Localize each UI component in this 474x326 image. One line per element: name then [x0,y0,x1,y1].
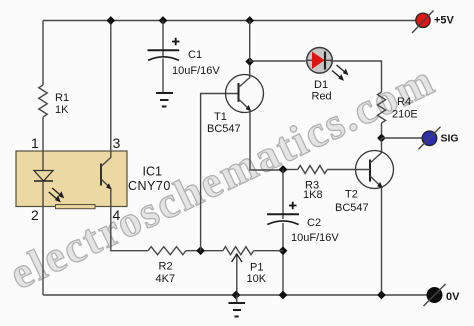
wire T1 emitter to junction [250,110,283,170]
svg-text:C2: C2 [307,217,321,229]
potentiometer P1 [223,247,254,295]
node junction top rail / T1 collector [245,16,254,25]
node junction T1 collector / D1 [245,57,254,66]
svg-text:CNY70: CNY70 [128,179,171,193]
wire junction to R3 [283,169,298,171]
resistor R1 [39,85,47,117]
wire R4 to junction [381,123,383,138]
svg-text:C1: C1 [188,49,202,61]
emission arrows of D1 [332,65,349,81]
node junction top rail / pin3 [106,16,115,25]
wire junction to SIG [382,137,423,139]
wire junction to D1 [250,60,306,62]
ground under P1 wiper [229,295,246,317]
label R4 210E [392,96,418,121]
wire D1 to R4 [331,61,382,92]
node junction wiper / bottom rail [232,291,241,300]
IC1 CNY70 optocoupler body [16,151,127,207]
emission arrows of IC1 LED [49,188,64,202]
ground under C1 [156,93,173,107]
resistor R2 [148,247,186,255]
LED D1 [306,48,333,74]
label T1 BC547 [207,111,241,135]
capacitor C2 [267,170,299,296]
terminal SIG [419,127,441,150]
watermark electroschematics.com [2,55,442,299]
svg-text:210E: 210E [392,109,418,121]
transistor T1 [226,62,264,113]
transistor T2 [356,151,394,189]
svg-text:R4: R4 [397,96,411,108]
notch tab on IC1 [56,205,96,209]
label R1 1K [55,92,69,116]
svg-text:R1: R1 [55,92,69,104]
wire R2 to P1 [186,250,223,252]
label R3 1K8 [303,180,323,201]
wire pin 3 riser [110,21,112,152]
wire pin 4 to R2 [111,207,148,251]
svg-text:1K: 1K [55,104,69,116]
node junction R4 / SIG / T2 collector [377,134,386,143]
wire bottom 0V rail [43,294,427,296]
svg-text:P1: P1 [250,262,263,274]
terminal 0V [424,284,446,306]
pin 3 label [113,135,121,151]
pin 2 label [31,207,39,223]
svg-text:BC547: BC547 [207,123,241,135]
label P1 10K [247,262,267,286]
svg-text:SIG: SIG [441,133,459,145]
svg-text:4: 4 [113,207,121,223]
svg-text:4K7: 4K7 [156,273,176,285]
label IC1 CNY70 [128,165,171,193]
wire pin 2 down to bottom rail [42,207,44,296]
node junction C2 / bottom rail [279,291,288,300]
svg-text:1K8: 1K8 [303,189,323,201]
pin 1 label [31,135,39,151]
svg-text:10K: 10K [247,273,267,285]
wire T1 collector to top rail [249,21,251,62]
svg-text:0V: 0V [446,291,460,303]
label +5V [434,15,455,27]
resistor R3 [298,166,328,174]
node junction C2 / P1 right [279,246,288,255]
svg-text:BC547: BC547 [335,202,369,214]
pin 4 label [113,207,121,223]
label SIG [441,133,459,145]
svg-text:3: 3 [113,135,121,151]
svg-text:10uF/16V: 10uF/16V [172,65,220,77]
svg-text:T1: T1 [214,111,227,123]
svg-text:IC1: IC1 [143,165,163,179]
svg-text:D1: D1 [314,79,328,91]
wire T2 emitter to bottom rail [381,187,383,295]
wire left rail from top to R1 [42,21,44,86]
label C1 10uF/16V [172,49,220,77]
internal LED of IC1 [34,151,53,207]
wire R3 to T2 base [327,169,370,171]
svg-text:+5V: +5V [434,15,455,27]
wire top +5V rail [43,20,416,22]
svg-text:2: 2 [31,207,39,223]
svg-text:R2: R2 [159,261,173,273]
resistor R4 [378,92,386,123]
wire T2 collector [381,138,383,153]
terminal +5V [412,11,434,34]
label T2 BC547 [335,189,369,215]
svg-text:10uF/16V: 10uF/16V [291,232,339,244]
wire T1 base riser [201,94,238,251]
svg-text:Red: Red [312,91,332,103]
node junction top rail / C1 [159,16,168,25]
label C2 10uF/16V [291,217,339,244]
node junction T1 emitter / R3 / C2 [279,165,288,174]
internal phototransistor of IC1 [101,151,112,207]
svg-text:1: 1 [31,135,39,151]
label D1 Red [312,79,332,103]
svg-text:T2: T2 [345,189,358,201]
wire R1 to pin 1 [42,117,44,151]
node junction R2/P1/T1 base [196,246,205,255]
node junction T2 emitter / bottom rail [377,291,386,300]
wire P1 right to C2 line [254,250,283,252]
label R2 4K7 [156,261,176,285]
capacitor C1 [148,21,180,93]
label 0V [446,291,460,303]
